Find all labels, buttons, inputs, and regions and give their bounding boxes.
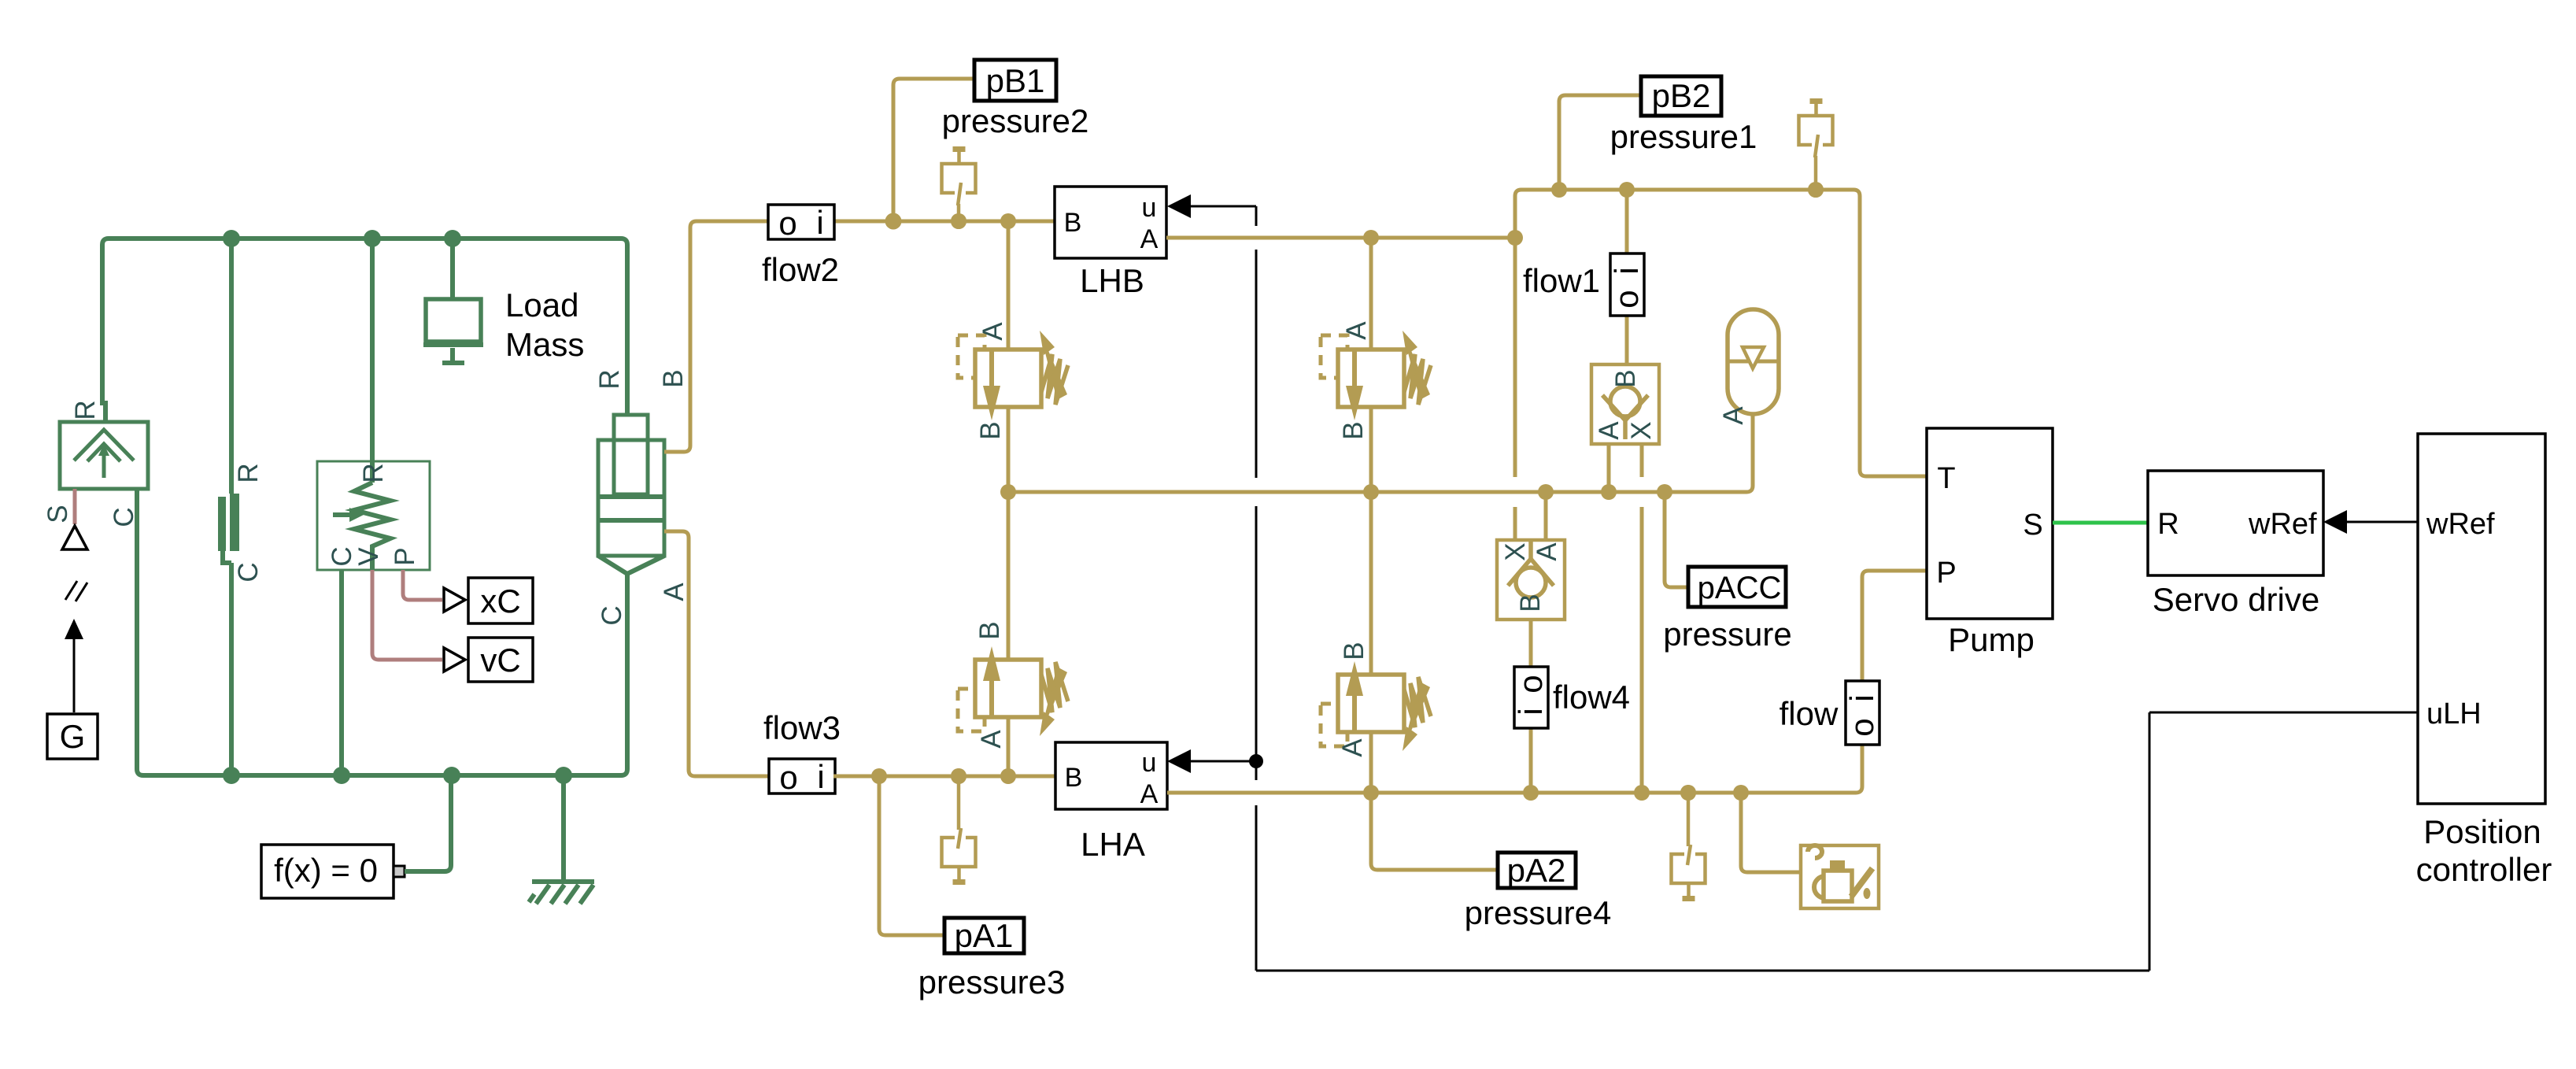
svg-text:f(x) = 0: f(x) = 0 (274, 852, 378, 889)
node black junction on uLH line (1249, 754, 1263, 768)
block flow3 sensor (769, 758, 835, 796)
svg-text:B: B (1610, 369, 1641, 387)
svg-text:uLH: uLH (2426, 697, 2482, 731)
wire riser to pB1 (893, 79, 974, 221)
svg-text:flow4: flow4 (1553, 679, 1630, 716)
svg-text:C: C (597, 605, 627, 625)
counterbalance valve v3 (upper right) (1321, 331, 1431, 420)
check valve 2 (pilot-operated) (1497, 540, 1565, 620)
svg-text:pressure: pressure (1663, 616, 1791, 653)
svg-text:B: B (658, 369, 689, 387)
block Position controller subsystem (2418, 434, 2545, 804)
svg-text:i: i (816, 204, 823, 241)
svg-text:wRef: wRef (2426, 508, 2495, 541)
svg-text:pB1: pB1 (986, 62, 1045, 99)
svg-text:A: A (1337, 738, 1368, 757)
svg-text:i: i (817, 758, 824, 795)
hydraulic reference tank below return bus (1672, 785, 1706, 901)
svg-text:A: A (1532, 542, 1562, 561)
svg-text:pressure4: pressure4 (1465, 894, 1612, 931)
svg-text:B: B (974, 621, 1005, 639)
wire check valve 2 A stub (1544, 492, 1548, 540)
svg-text:A: A (1594, 421, 1624, 440)
wire green bottom bus from friction C around to cylinder C (137, 489, 627, 775)
svg-text:A: A (976, 730, 1007, 749)
wire cylinder B to flow2 (664, 221, 769, 452)
svg-text:B: B (1065, 763, 1083, 793)
block vC display (468, 638, 533, 682)
svg-text:B: B (1064, 208, 1082, 238)
wire to hydraulic fluid block (1741, 793, 1801, 872)
svg-text:pA2: pA2 (1507, 852, 1566, 889)
check valve 1 (pilot-operated) (1591, 364, 1659, 444)
wire v3/v4 column (1369, 238, 1373, 793)
wire Pump S to Servo drive R (physical rotational, green) (2053, 521, 2148, 525)
motion sensor (ideal translational motion sensor) (317, 239, 430, 570)
wire branch to LHA u port (1167, 749, 1259, 773)
block pACC goto (1688, 567, 1786, 607)
wire flow2 to LHB B port (833, 220, 1055, 224)
wire flow1 riser from pB2 bus (1625, 190, 1629, 365)
node junctions on LHB A line (1363, 230, 1379, 246)
wire v1/v2 column from flow2 line down to LHA B line (1007, 221, 1011, 776)
block LHA subsystem (1055, 742, 1167, 809)
wire uLH signal from Position controller to LHB/LHA u ports (1167, 194, 2418, 971)
svg-text:pressure3: pressure3 (918, 964, 1066, 1001)
wire pilot X line pB2-bus to check valve 2 (1515, 190, 1521, 540)
ground mechanical reference (529, 775, 594, 904)
wire pump P to flow sensor (1862, 571, 1927, 681)
wire V physical signal to vC (372, 570, 442, 660)
svg-text:P: P (1936, 557, 1956, 590)
block hydraulic fluid (oil can) (1801, 845, 1879, 908)
svg-text:pressure1: pressure1 (1610, 118, 1757, 155)
svg-text:controller: controller (2416, 851, 2552, 888)
svg-text:LHB: LHB (1080, 262, 1144, 299)
svg-text:pACC: pACC (1698, 571, 1782, 605)
label Load Mass (505, 287, 584, 363)
svg-text:u: u (1142, 748, 1157, 778)
svg-text:X: X (1500, 542, 1531, 560)
block flow sensor (1843, 681, 1880, 745)
wire LHB A line to pB2 riser (1166, 236, 1515, 240)
solver f(x)=0 block (261, 845, 405, 898)
svg-text:T: T (1937, 462, 1955, 495)
block flow4 sensor (1512, 667, 1549, 728)
svg-text:A: A (1341, 321, 1372, 340)
block flow1 sensor (1608, 253, 1645, 316)
svg-text:o: o (1843, 718, 1880, 736)
svg-text:S: S (43, 505, 73, 523)
svg-text:B: B (1515, 594, 1546, 612)
svg-text:Pump: Pump (1948, 621, 2035, 658)
wire pB2 bus from X riser to Pump T (1521, 190, 1927, 476)
accumulator gas-charged (1728, 309, 1779, 414)
svg-text:B: B (975, 421, 1006, 439)
svg-text:i: i (1843, 694, 1880, 701)
node green bus junctions (223, 230, 240, 247)
hydraulic reference tank on pB2 bus (1799, 98, 1833, 198)
svg-text:S: S (2023, 509, 2042, 542)
svg-text:A: A (1718, 406, 1749, 425)
wire P physical signal to xC (403, 570, 442, 600)
counterbalance valve v1 (B side upper) (958, 331, 1068, 420)
port PS output triangle xC (444, 588, 465, 612)
svg-text:pB2: pB2 (1652, 77, 1711, 114)
svg-text:xC: xC (480, 583, 520, 620)
node junctions on tank return bus (1363, 785, 1379, 801)
svg-text:A: A (659, 583, 689, 601)
wire pilot X line check valve 1 to tank bus (1640, 444, 1644, 793)
svg-text:wRef: wRef (2248, 508, 2317, 541)
svg-text:i: i (1512, 708, 1549, 715)
svg-text:G: G (60, 718, 86, 755)
svg-text:Load: Load (505, 287, 578, 324)
block pA1 goto (944, 917, 1024, 954)
cylinder (double-acting hydraulic cylinder) (598, 415, 664, 574)
wire riser to pB2 (1559, 95, 1641, 190)
wire friction S physical signal (73, 489, 77, 524)
svg-text:o: o (1608, 290, 1645, 308)
svg-text:Servo drive: Servo drive (2153, 581, 2319, 618)
block xC display (468, 578, 533, 623)
svg-text:A: A (978, 322, 1008, 341)
wire solver to bottom bus (405, 775, 451, 871)
wire green top bus with friction drop (102, 239, 627, 422)
svg-text:Mass: Mass (505, 326, 584, 363)
svg-text:V: V (353, 547, 384, 566)
node green bottom bus junctions (223, 767, 240, 784)
svg-text:flow: flow (1780, 695, 1839, 732)
svg-text:R: R (233, 463, 264, 483)
friction block (translational friction) (60, 422, 148, 489)
svg-text:LHA: LHA (1081, 826, 1145, 863)
signal break marks (65, 581, 87, 601)
svg-text:u: u (1142, 193, 1157, 223)
svg-text:A: A (1140, 779, 1159, 809)
node junctions on flow2 line (885, 213, 902, 230)
svg-text:R: R (358, 463, 389, 483)
svg-text:X: X (1626, 421, 1657, 439)
wire drop to pA1 (879, 776, 944, 935)
block Servo drive subsystem (2148, 471, 2323, 575)
svg-text:Position: Position (2423, 813, 2541, 850)
wire cv2 B to flow4 (1529, 620, 1533, 793)
counterbalance valve v4 (lower right) (1321, 661, 1431, 751)
svg-text:P: P (390, 547, 420, 565)
svg-text:vC: vC (480, 642, 520, 679)
svg-text:flow1: flow1 (1523, 262, 1600, 299)
counterbalance valve v2 (A side lower-left) (958, 646, 1068, 736)
svg-text:flow3: flow3 (763, 709, 841, 746)
svg-text:R: R (70, 400, 101, 420)
block Pump subsystem (1927, 428, 2053, 619)
svg-text:o: o (1512, 675, 1549, 693)
wire wRef from Position controller to Servo drive (2323, 510, 2418, 534)
svg-text:o: o (779, 759, 797, 796)
wire G arrow into break (65, 619, 83, 712)
block pB1 goto (974, 60, 1056, 101)
svg-text:pressure2: pressure2 (942, 102, 1089, 139)
svg-text:R: R (594, 369, 625, 389)
svg-text:i: i (1608, 267, 1645, 274)
label Position controller (2416, 813, 2552, 888)
port PS input triangle (62, 526, 87, 549)
wire LHA A line (tank return bus) to flow sensor (1167, 745, 1862, 793)
svg-text:A: A (1140, 224, 1159, 254)
port PS output triangle vC (444, 648, 465, 671)
hydraulic reference tank below LHA line (942, 768, 976, 885)
svg-text:pA1: pA1 (955, 917, 1014, 954)
svg-text:C: C (233, 562, 264, 582)
wire drop to pA2 (1371, 793, 1498, 870)
svg-text:B: B (1338, 421, 1369, 439)
wire pACC from middle bus (1665, 492, 1689, 587)
svg-text:o: o (778, 205, 796, 242)
wire flow3 to LHA B port (833, 775, 1055, 779)
node junctions on LHA B line (871, 768, 887, 784)
block G source (47, 714, 98, 759)
svg-text:B: B (1339, 642, 1369, 660)
hydraulic reference tank above flow2 line (942, 146, 976, 229)
node junctions on pB2 bus (1551, 182, 1567, 198)
wire check valve 1 A stub (1607, 444, 1611, 492)
svg-text:C: C (109, 507, 139, 527)
wire motion sensor C to bottom bus (339, 570, 344, 775)
svg-text:R: R (2157, 508, 2179, 541)
wire middle tank bus to accumulator (1008, 412, 1753, 492)
load mass block (423, 239, 483, 363)
node junctions on middle bus (1000, 484, 1016, 500)
block LHB subsystem (1055, 187, 1166, 258)
block pA2 goto (1498, 852, 1576, 889)
svg-text:flow2: flow2 (762, 251, 839, 288)
block flow2 sensor (768, 204, 834, 242)
wire cylinder A to flow3 (664, 531, 770, 776)
block pB2 goto (1641, 76, 1721, 116)
damper (translational damper) (218, 239, 239, 775)
